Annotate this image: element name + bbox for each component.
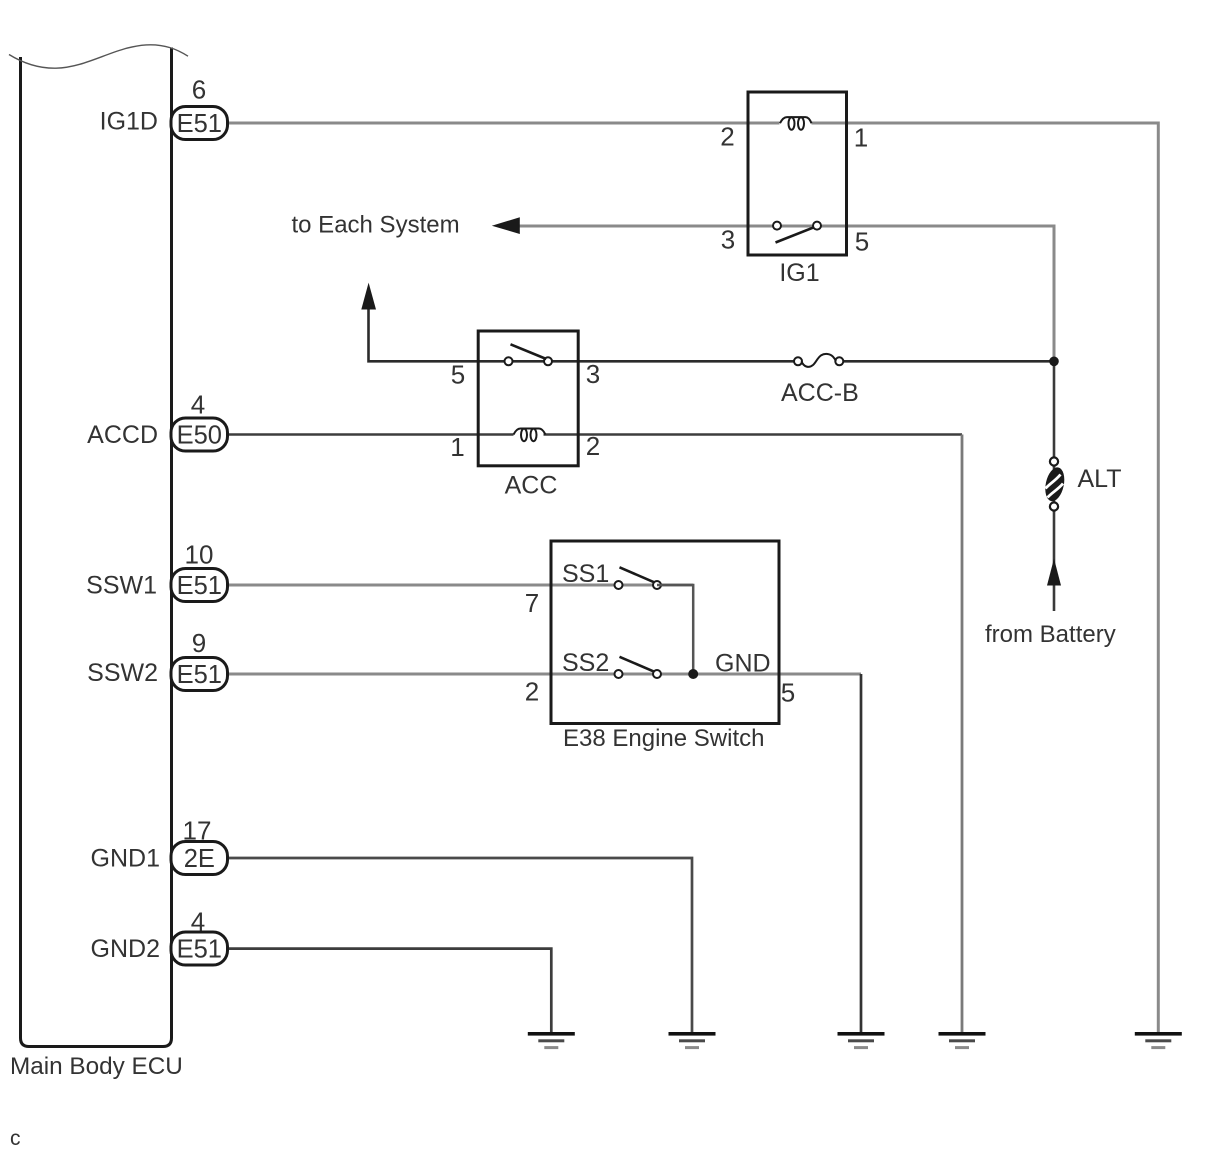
svg-text:1: 1 [450, 432, 464, 462]
ground symbol 4 (ACCD net) [939, 1032, 986, 1049]
relay IG1 switch contacts [773, 222, 781, 230]
svg-text:from Battery: from Battery [985, 621, 1116, 648]
svg-text:9: 9 [192, 628, 206, 658]
ground symbol 2 (GND1 net) [669, 1032, 716, 1049]
svg-text:c: c [10, 1127, 21, 1150]
connector E51 (GND2) [171, 932, 228, 965]
svg-text:SS2: SS2 [562, 649, 609, 677]
relay IG1 switch blade [776, 227, 815, 242]
wire ACCD ground stem [961, 435, 964, 1034]
fusible link ALT [1042, 457, 1067, 510]
Main Body ECU box [21, 48, 172, 1047]
svg-text:5: 5 [855, 227, 869, 257]
svg-text:E51: E51 [177, 110, 222, 138]
svg-text:GND: GND [715, 650, 771, 678]
wire ACCD net: oval E50 through ACC coil to x962 [228, 433, 962, 436]
wire SS1 to SS2 junction [657, 585, 693, 674]
svg-text:4: 4 [191, 390, 205, 420]
switch SS1 contacts [615, 581, 623, 589]
switch SS2 contacts [615, 670, 623, 678]
ground symbol 3 (E38 GND net) [838, 1032, 885, 1049]
junction dot (ACC-B / ALT) [1049, 357, 1059, 367]
connector 2E (GND1) [171, 842, 228, 875]
arrow left (to Each System) [492, 217, 520, 234]
arrow up (ACC feed) [361, 283, 376, 310]
svg-text:5: 5 [781, 678, 795, 708]
svg-text:E51: E51 [177, 936, 222, 964]
relay ACC switch contacts [505, 357, 513, 365]
svg-text:3: 3 [721, 225, 735, 255]
wire ACC pin5 feed with up arrow, switch row to fuse [369, 306, 800, 361]
wire IG1 pin3 to arrow (to Each System), pin5 to x1054 and down to junction [516, 226, 1054, 361]
svg-text:2: 2 [525, 677, 539, 707]
svg-text:ACC: ACC [505, 472, 558, 500]
svg-text:E50: E50 [177, 422, 222, 450]
wire SSW1 net: oval to SS1 to link [228, 584, 693, 587]
switch E38 box [551, 541, 779, 724]
junction dot (SS2/GND) [688, 669, 698, 679]
connector E50 (ACCD) [171, 418, 228, 451]
svg-text:Main Body ECU: Main Body ECU [10, 1053, 183, 1080]
svg-text:1: 1 [854, 123, 868, 153]
wire GND1 net: oval 2E to ground [228, 858, 692, 1033]
wire ACC-B net: fuse to junction [839, 360, 1055, 363]
svg-text:5: 5 [451, 360, 465, 390]
svg-text:6: 6 [192, 75, 206, 105]
switch SS1 blade [620, 567, 655, 582]
svg-text:to Each System: to Each System [292, 212, 460, 239]
svg-text:IG1D: IG1D [100, 108, 158, 136]
svg-text:IG1: IG1 [779, 259, 819, 287]
svg-text:ALT: ALT [1078, 465, 1122, 493]
svg-text:2E: 2E [184, 845, 215, 873]
svg-text:2: 2 [586, 431, 600, 461]
connector E51 (SSW2) [171, 658, 228, 691]
fuse ACC-B [794, 354, 843, 367]
ECU torn-top wavy line [9, 45, 188, 68]
switch SS2 blade [620, 657, 655, 672]
relay IG1 coil [780, 117, 812, 130]
svg-text:10: 10 [185, 540, 214, 570]
arrow up (from Battery) [1047, 559, 1061, 586]
ground symbol 1 (GND2 net) [528, 1032, 575, 1049]
svg-text:SS1: SS1 [562, 560, 609, 588]
connector E51 (SSW1) [171, 569, 228, 602]
svg-text:GND1: GND1 [91, 845, 160, 873]
svg-text:7: 7 [525, 588, 539, 618]
svg-text:3: 3 [586, 359, 600, 389]
ground symbol 5 (IG1D net) [1135, 1032, 1182, 1049]
svg-text:ACCD: ACCD [87, 421, 158, 449]
svg-text:GND2: GND2 [91, 935, 160, 963]
wire ALT vertical: junction through ALT to from-Battery [1053, 361, 1056, 611]
svg-text:E38 Engine Switch: E38 Engine Switch [563, 725, 764, 752]
connector E51 (IG1D) [171, 107, 228, 140]
relay ACC box [478, 331, 578, 466]
svg-text:E51: E51 [177, 572, 222, 600]
wire SSW2 net: oval to SS2, GND row to x861 [228, 673, 861, 676]
svg-text:SSW2: SSW2 [87, 659, 158, 687]
relay IG1 box [748, 92, 847, 255]
wire GND2 net: oval E51 to ground [228, 949, 551, 1033]
svg-text:ACC-B: ACC-B [781, 379, 859, 407]
svg-text:SSW1: SSW1 [86, 572, 157, 600]
wire E38 GND ground stem [860, 674, 863, 1033]
svg-text:E51: E51 [177, 661, 222, 689]
svg-text:2: 2 [720, 122, 734, 152]
relay ACC coil [514, 429, 546, 442]
relay ACC switch blade [511, 344, 547, 359]
wire IG1D net: oval E51 to IG1 pin2, pin1 to right, down to ground [228, 123, 1158, 1033]
